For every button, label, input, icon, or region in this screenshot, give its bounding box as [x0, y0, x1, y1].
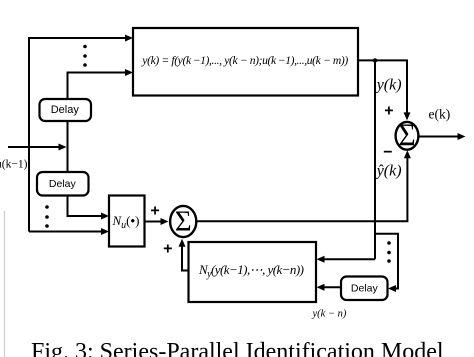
delay D2: [37, 172, 89, 196]
op sum2 subtractor circle: [396, 118, 419, 153]
wire f output to sum2: [358, 60, 411, 120]
block f: system model box: [133, 28, 358, 96]
svg-text:y(k): y(k): [375, 77, 402, 94]
svg-text:Σ: Σ: [175, 206, 192, 238]
delay D3: [341, 277, 388, 301]
block Ny: [189, 242, 317, 302]
op sum1 summation circle: [170, 206, 196, 238]
delay D1: [40, 99, 92, 121]
wire Ny output to sum1: [179, 239, 189, 271]
svg-text:Delay: Delay: [351, 282, 379, 294]
wire y(k) feedback vertical: [374, 60, 376, 259]
block Nu: [109, 196, 145, 247]
wire left outer vertical: [28, 37, 30, 232]
svg-text:y(k − n): y(k − n): [312, 309, 347, 320]
svg-text:+: +: [163, 241, 172, 258]
wire D2 to Nu: [68, 196, 110, 220]
svg-text:+: +: [150, 203, 159, 220]
wire feedback branch to D3: [375, 234, 398, 292]
svg-text:u(k−1): u(k−1): [0, 159, 28, 171]
svg-text:Delay: Delay: [49, 178, 77, 190]
wire input arrow 2 to f: [68, 69, 134, 76]
node dots vertical ellipsis top: [83, 45, 87, 67]
wire sum1 output yhat to sum2: [196, 150, 411, 221]
node dots vertical ellipsis right: [387, 241, 391, 263]
faint page-edge artifact line: [4, 211, 6, 357]
wire D1 to D2: [67, 121, 69, 172]
node dots vertical ellipsis left: [45, 205, 49, 228]
svg-text:ŷ(k): ŷ(k): [375, 163, 402, 180]
wire delay chain vertical top: [67, 72, 69, 101]
wire input arrow 1 to f: [29, 35, 133, 42]
svg-text:−: −: [383, 144, 392, 161]
svg-text:Fig. 3: Series-Parallel Identi: Fig. 3: Series-Parallel Identification M…: [31, 339, 444, 357]
svg-text:Σ: Σ: [398, 118, 415, 153]
wire Nu to sum1: [145, 218, 169, 225]
svg-text:e(k): e(k): [429, 107, 451, 122]
wire D3 to Ny: [317, 284, 342, 291]
svg-text:Delay: Delay: [51, 104, 80, 116]
wire feedback into Ny first input: [317, 256, 376, 263]
svg-text:y(k) = f(y(k −1),..., y(k − n): y(k) = f(y(k −1),..., y(k − n);u(k −1),.…: [141, 54, 348, 67]
wire sum2 output e(k): [419, 133, 466, 140]
node junction dot y(k): [373, 58, 377, 62]
wire left outer to Nu: [29, 228, 109, 235]
wire input u(k-1) arrow: [8, 144, 67, 151]
svg-text:+: +: [384, 102, 393, 119]
